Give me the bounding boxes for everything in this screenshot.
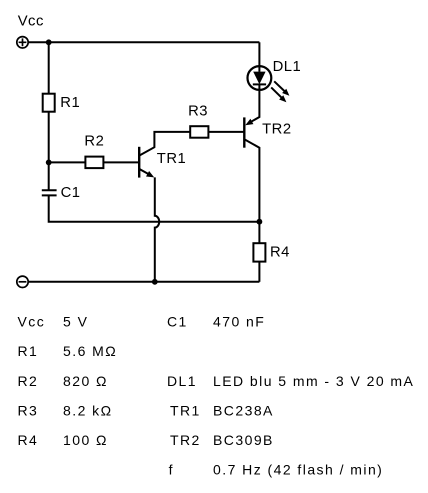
wire top rail Vcc	[28, 41, 259, 43]
wire R4 to bottom rail	[258, 262, 260, 282]
wire bottom rail	[28, 281, 259, 283]
svg-text:R4: R4	[18, 432, 39, 448]
wire node to R2	[49, 161, 86, 163]
LED DL1 body	[248, 66, 272, 90]
svg-text:f: f	[169, 462, 174, 478]
resistor R1	[43, 94, 55, 112]
svg-text:5 V: 5 V	[63, 314, 88, 330]
resistor R4	[253, 243, 265, 261]
svg-text:C1: C1	[61, 185, 81, 201]
wire TR2 collector to R4	[258, 222, 260, 244]
svg-text:R3: R3	[188, 103, 208, 119]
wire LED anode	[258, 42, 260, 72]
svg-text:R2: R2	[84, 133, 104, 149]
plus supply terminal	[17, 37, 28, 48]
svg-text:Vcc: Vcc	[18, 314, 46, 330]
wire C1 bottom to horizontal run	[49, 195, 260, 221]
LED emission arrow 1	[274, 81, 284, 91]
LED arrow 2 head	[279, 95, 286, 102]
minus supply terminal	[17, 276, 28, 287]
LED arrow 1 head	[282, 89, 289, 96]
svg-text:DL1: DL1	[167, 373, 197, 389]
wire TR1 emitter vertical with hop	[155, 177, 159, 281]
transistor TR1 bar	[138, 147, 140, 178]
svg-text:BC309B: BC309B	[213, 432, 274, 448]
svg-text:R1: R1	[60, 95, 80, 111]
resistor R3	[190, 126, 208, 138]
wire LED cathode to TR2 emitter	[252, 84, 260, 121]
node dot R1/R2/C1	[46, 160, 52, 166]
LED emission arrow 2	[271, 87, 281, 97]
svg-text:0.7 Hz (42 flash / min): 0.7 Hz (42 flash / min)	[213, 462, 383, 478]
LED cathode bar	[253, 83, 266, 85]
svg-text:DL1: DL1	[273, 59, 302, 75]
svg-text:100 Ω: 100 Ω	[63, 432, 108, 448]
node dot TR2/R4	[257, 219, 263, 225]
svg-text:R1: R1	[18, 343, 39, 359]
svg-text:TR2: TR2	[170, 432, 201, 448]
TR2 emitter arrowhead	[245, 119, 253, 125]
svg-text:R2: R2	[18, 373, 39, 389]
LED triangle	[253, 72, 265, 85]
svg-text:R4: R4	[270, 245, 290, 261]
svg-text:C1: C1	[167, 314, 188, 330]
svg-text:Vcc: Vcc	[18, 13, 44, 29]
node dot top Vcc/R1	[46, 39, 52, 45]
resistor R2	[85, 157, 103, 169]
svg-text:BC238A: BC238A	[213, 402, 274, 418]
svg-text:8.2 kΩ: 8.2 kΩ	[63, 402, 113, 418]
wire TR1 emitter	[139, 169, 149, 175]
wire R3 to TR2 base	[208, 131, 244, 133]
capacitor C1	[42, 190, 57, 195]
TR1 emitter arrowhead	[146, 171, 154, 177]
svg-text:TR1: TR1	[157, 151, 186, 167]
svg-text:TR1: TR1	[170, 402, 201, 418]
wire TR1 collector to R3	[139, 132, 190, 156]
svg-text:470 nF: 470 nF	[213, 314, 265, 330]
wire TR2 collector	[244, 139, 259, 221]
transistor TR2 bar	[243, 117, 245, 147]
wire R2 to TR1 base	[103, 161, 139, 163]
svg-text:820 Ω: 820 Ω	[63, 373, 108, 389]
svg-text:TR2: TR2	[262, 122, 291, 138]
svg-text:5.6 MΩ: 5.6 MΩ	[63, 343, 117, 359]
wire left vertical through R1	[48, 42, 50, 190]
svg-text:LED blu 5 mm - 3 V 20 mA: LED blu 5 mm - 3 V 20 mA	[213, 373, 414, 389]
svg-text:R3: R3	[18, 402, 39, 418]
node dot emitter/bottom rail	[152, 279, 158, 285]
